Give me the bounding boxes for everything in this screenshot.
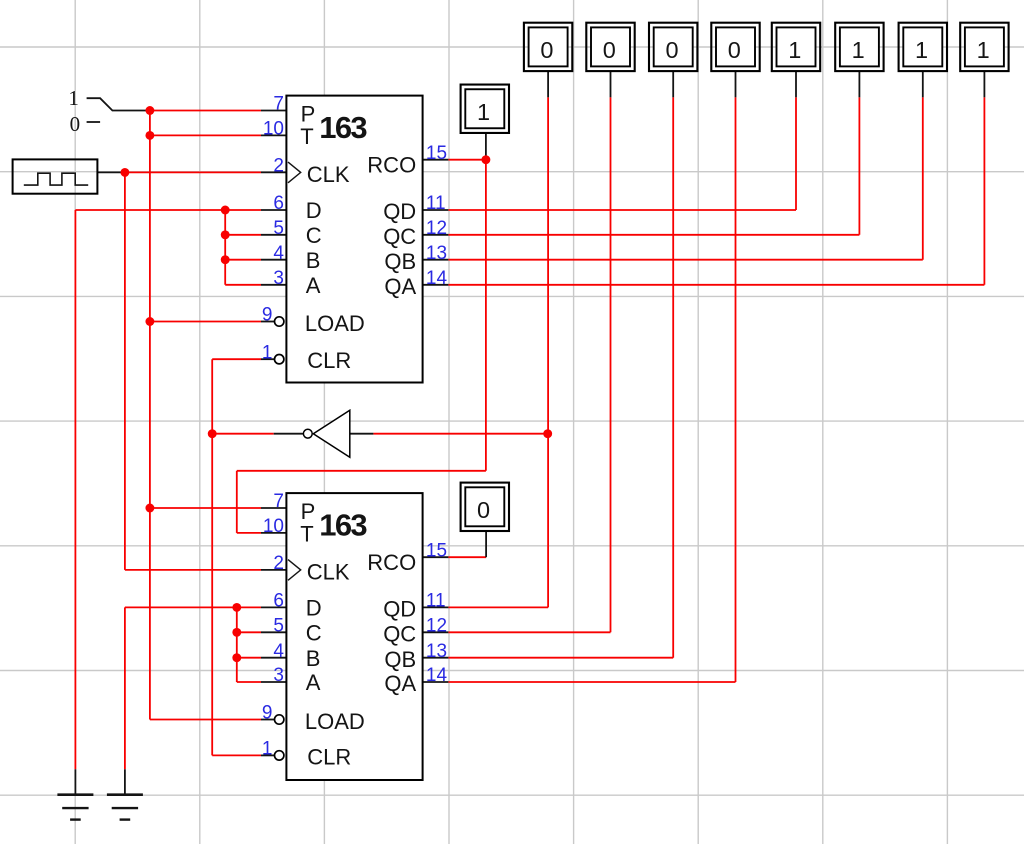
svg-text:15: 15 — [426, 541, 447, 562]
svg-text:QB: QB — [384, 249, 416, 274]
svg-text:1: 1 — [788, 37, 801, 63]
svg-text:1: 1 — [852, 37, 865, 63]
svg-text:LOAD: LOAD — [305, 311, 365, 336]
svg-text:QC: QC — [383, 622, 416, 647]
svg-text:163: 163 — [319, 507, 367, 542]
svg-text:6: 6 — [273, 591, 284, 612]
svg-text:RCO: RCO — [367, 550, 416, 575]
svg-text:QA: QA — [384, 274, 416, 299]
svg-text:9: 9 — [262, 703, 273, 724]
svg-text:3: 3 — [273, 268, 284, 289]
svg-text:1: 1 — [477, 99, 490, 125]
svg-text:1: 1 — [977, 37, 990, 63]
svg-text:14: 14 — [426, 268, 448, 289]
svg-text:P: P — [301, 499, 316, 524]
svg-text:9: 9 — [262, 305, 273, 326]
svg-text:12: 12 — [426, 218, 447, 239]
svg-text:11: 11 — [426, 591, 446, 612]
svg-text:14: 14 — [426, 665, 448, 686]
svg-text:10: 10 — [263, 516, 284, 537]
svg-text:2: 2 — [273, 156, 284, 177]
svg-text:0: 0 — [540, 37, 553, 63]
svg-text:163: 163 — [319, 110, 367, 145]
svg-text:12: 12 — [426, 616, 447, 637]
svg-text:4: 4 — [273, 243, 284, 264]
svg-text:C: C — [306, 621, 322, 646]
svg-text:RCO: RCO — [367, 152, 416, 177]
svg-text:5: 5 — [273, 616, 284, 637]
svg-text:3: 3 — [273, 665, 284, 686]
svg-text:11: 11 — [426, 193, 446, 214]
svg-text:A: A — [306, 273, 321, 298]
svg-text:QD: QD — [383, 597, 416, 622]
svg-text:D: D — [306, 596, 322, 621]
svg-text:P: P — [301, 101, 316, 126]
svg-text:QC: QC — [383, 224, 416, 249]
svg-text:1: 1 — [915, 37, 928, 63]
svg-text:A: A — [306, 670, 321, 695]
svg-text:LOAD: LOAD — [305, 709, 365, 734]
svg-text:B: B — [306, 248, 321, 273]
svg-text:CLR: CLR — [307, 744, 351, 769]
svg-text:1: 1 — [68, 86, 79, 110]
svg-text:0: 0 — [477, 497, 490, 523]
svg-text:CLR: CLR — [307, 348, 351, 373]
svg-text:CLK: CLK — [307, 162, 350, 187]
svg-text:0: 0 — [70, 112, 81, 136]
svg-text:D: D — [306, 198, 322, 223]
svg-text:0: 0 — [603, 37, 616, 63]
svg-text:0: 0 — [728, 37, 741, 63]
svg-text:13: 13 — [426, 641, 447, 662]
svg-text:7: 7 — [273, 94, 284, 115]
svg-text:CLK: CLK — [307, 560, 350, 585]
svg-text:1: 1 — [262, 342, 273, 363]
svg-text:QA: QA — [384, 671, 416, 696]
svg-text:7: 7 — [273, 491, 284, 512]
svg-text:QB: QB — [384, 647, 416, 672]
svg-text:6: 6 — [273, 193, 284, 214]
svg-text:2: 2 — [273, 553, 284, 574]
svg-text:4: 4 — [273, 641, 284, 662]
svg-text:1: 1 — [262, 739, 273, 760]
svg-text:T: T — [300, 521, 313, 546]
svg-text:B: B — [306, 646, 321, 671]
svg-text:C: C — [306, 223, 322, 248]
svg-text:0: 0 — [665, 37, 678, 63]
svg-text:13: 13 — [426, 243, 447, 264]
svg-text:15: 15 — [426, 143, 447, 164]
svg-text:T: T — [300, 124, 313, 149]
svg-text:10: 10 — [263, 119, 284, 140]
svg-text:5: 5 — [273, 218, 284, 239]
svg-text:QD: QD — [383, 199, 416, 224]
